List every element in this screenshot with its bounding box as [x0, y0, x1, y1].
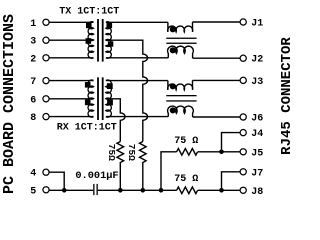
resistor R2 75 ohm (vertical)	[140, 142, 147, 191]
wire pin8 to T2 primary bottom	[49, 116, 93, 118]
pin 8 terminal	[43, 114, 49, 120]
wire choke L1 winding A to J1	[193, 21, 241, 23]
wire choke L2 winding B to J6	[193, 116, 241, 118]
transformer T1 secondary phasing dot (top)	[107, 23, 113, 29]
J8 terminal	[240, 187, 246, 193]
ground rail wire (R4 to J8)	[198, 189, 240, 191]
transformer T1 primary phasing dot (center tap)	[86, 38, 92, 44]
choke L2 winding A phasing dot	[170, 83, 176, 89]
wire rail to resistor R3	[161, 152, 177, 191]
pin 5 terminal	[43, 187, 49, 193]
svg-text:J8: J8	[251, 187, 263, 198]
svg-text:4: 4	[30, 169, 36, 180]
wire T2 secondary top to choke L2 winding A	[106, 80, 168, 82]
J5 terminal	[240, 149, 246, 155]
transformer T2 primary phasing dot (center tap)	[85, 100, 91, 106]
choke L1 winding B	[168, 46, 194, 58]
choke L1 winding B phasing dot	[170, 47, 176, 53]
junction R3-branch/rail	[159, 188, 164, 193]
wire branch to J7	[222, 172, 241, 191]
pin 1 terminal	[43, 19, 49, 25]
resistor R4 75 ohm (in rail)	[177, 187, 198, 194]
wire T1 secondary bottom to choke L1 winding B	[106, 57, 168, 59]
svg-text:TX 1CT:1CT: TX 1CT:1CT	[59, 6, 119, 17]
choke L1 core	[166, 38, 196, 39]
svg-text:RJ45 CONNECTOR: RJ45 CONNECTOR	[279, 37, 295, 155]
transformer T1 primary winding	[88, 22, 93, 59]
wire pin3 to T1 primary center tap	[49, 39, 93, 41]
J3 terminal	[240, 77, 246, 83]
choke L2 core	[166, 95, 196, 96]
transformer T1 secondary winding	[106, 22, 111, 59]
svg-text:J3: J3	[251, 77, 263, 88]
svg-text:3: 3	[30, 37, 36, 48]
wire R3 to J5	[198, 151, 240, 153]
wire T2 secondary center tap to resistor R1 (vertical, with hop)	[106, 99, 125, 142]
transformer T2 primary phasing dot (top)	[85, 82, 91, 88]
svg-text:6: 6	[30, 95, 36, 106]
svg-text:PC BOARD CONNECTIONS: PC BOARD CONNECTIONS	[1, 14, 18, 194]
choke L2 winding A	[168, 80, 193, 90]
transformer T2 core	[97, 77, 99, 120]
svg-text:7: 7	[30, 77, 36, 88]
svg-text:75 Ω: 75 Ω	[174, 136, 198, 147]
junction J4-branch/R3	[219, 150, 224, 155]
resistor R3 75 ohm (horizontal)	[177, 149, 198, 156]
svg-text:75Ω: 75Ω	[126, 144, 137, 161]
wire T1 secondary top to choke L1 winding A	[106, 21, 168, 23]
wire pin7 to T2 primary top	[49, 80, 93, 82]
choke L1 winding A phasing dot	[170, 26, 176, 32]
svg-text:0.001µF: 0.001µF	[75, 170, 118, 182]
svg-text:75 Ω: 75 Ω	[174, 174, 198, 185]
wire T2 secondary bottom to choke L2 winding B	[106, 116, 168, 118]
wire T1 secondary center tap to resistor R2 (vertical, with hops)	[106, 40, 148, 141]
wire pin1 to T1 primary top	[49, 21, 93, 23]
transformer T2 secondary phasing dot (top)	[107, 83, 113, 89]
J1 terminal	[240, 19, 246, 25]
transformer T2 secondary winding	[106, 80, 111, 117]
wire branch to J4	[222, 133, 241, 152]
wire choke L2 winding A to J3	[193, 79, 241, 81]
J7 terminal	[240, 169, 246, 175]
ground rail wire (cap to R4)	[98, 189, 177, 191]
svg-text:J2: J2	[251, 55, 263, 66]
svg-text:1: 1	[30, 19, 36, 30]
svg-text:J4: J4	[251, 129, 263, 140]
svg-text:J5: J5	[251, 148, 263, 159]
wire pin5 to capacitor C1	[49, 189, 93, 191]
wire pin4 to ground rail	[49, 172, 64, 190]
pin 4 terminal	[43, 169, 49, 175]
junction pin4/rail	[62, 188, 67, 193]
choke L2 winding B	[168, 106, 194, 117]
resistor R1 75 ohm (vertical)	[117, 142, 124, 191]
junction R2/rail	[141, 188, 146, 193]
pin 3 terminal	[43, 37, 49, 43]
transformer T1 secondary phasing dot (center tap)	[108, 41, 113, 46]
choke L1 winding A	[168, 22, 193, 32]
svg-text:5: 5	[30, 186, 36, 197]
transformer T1 primary phasing dot (top)	[86, 23, 92, 29]
wire pin2 to T1 primary bottom	[49, 57, 93, 59]
svg-text:8: 8	[30, 113, 36, 124]
svg-text:J7: J7	[251, 168, 263, 179]
junction R1/rail	[118, 188, 123, 193]
transformer T1 core	[97, 19, 99, 62]
transformer T2 primary winding	[88, 80, 93, 117]
wire pin6 to T2 primary center tap	[49, 98, 93, 100]
transformer T2 secondary phasing dot (center tap)	[107, 100, 113, 106]
J2 terminal	[240, 55, 246, 61]
J6 terminal	[240, 114, 246, 120]
svg-text:J6: J6	[251, 114, 263, 125]
svg-text:75Ω: 75Ω	[106, 144, 117, 161]
pin 2 terminal	[43, 55, 49, 61]
svg-text:2: 2	[30, 54, 36, 65]
wire choke L1 winding B to J2	[193, 57, 241, 59]
J4 terminal	[240, 130, 246, 136]
svg-text:RX 1CT:1CT: RX 1CT:1CT	[57, 123, 117, 134]
choke L2 winding B phasing dot	[170, 107, 176, 113]
pin 6 terminal	[43, 96, 49, 102]
junction J7-branch/rail	[219, 188, 224, 193]
pin 7 terminal	[43, 78, 49, 84]
capacitor C1 plates	[93, 184, 94, 195]
svg-text:J1: J1	[251, 19, 263, 30]
